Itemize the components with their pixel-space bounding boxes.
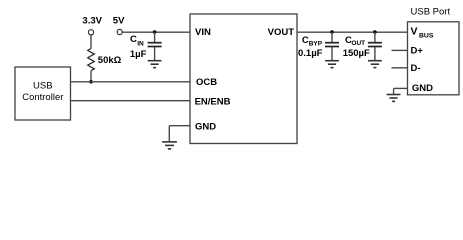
junction node COUT <box>373 30 377 34</box>
svg-text:150µF: 150µF <box>343 48 370 59</box>
svg-text:50kΩ: 50kΩ <box>98 55 122 66</box>
svg-text:OUT: OUT <box>351 40 365 47</box>
svg-text:USB: USB <box>33 81 53 92</box>
svg-text:D+: D+ <box>411 45 424 56</box>
svg-text:3.3V: 3.3V <box>82 16 102 27</box>
wire EN/ENB <box>71 100 190 102</box>
svg-text:VOUT: VOUT <box>268 27 295 38</box>
capacitor C_BYP <box>331 32 333 42</box>
svg-text:GND: GND <box>412 83 433 94</box>
svg-text:EN/ENB: EN/ENB <box>195 97 231 108</box>
svg-text:GND: GND <box>195 122 216 133</box>
svg-text:5V: 5V <box>113 16 125 27</box>
svg-text:IN: IN <box>137 40 144 47</box>
svg-text:V: V <box>411 25 418 37</box>
wire VOUT <box>297 31 408 33</box>
resistor R1 50k zigzag <box>88 49 95 71</box>
wire 3.3V to resistor <box>90 35 92 49</box>
wire GND pin of IC <box>169 125 190 127</box>
USB Controller box <box>15 67 71 120</box>
wire resistor to OCB node <box>90 71 92 82</box>
svg-text:Controller: Controller <box>22 92 63 103</box>
svg-text:C: C <box>130 34 137 45</box>
ground (C_OUT) <box>368 61 382 68</box>
svg-text:D-: D- <box>411 63 421 74</box>
ground (USB port) <box>387 95 401 102</box>
IC U1 box <box>190 14 297 144</box>
wire 5V to VIN <box>122 31 190 33</box>
wire USB port GND <box>394 87 408 89</box>
svg-text:USB Port: USB Port <box>411 7 451 18</box>
ground (C_IN) <box>148 61 162 68</box>
ground (C_BYP) <box>325 61 339 68</box>
wire D- stub <box>392 67 408 69</box>
svg-text:OCB: OCB <box>196 77 217 88</box>
capacitor C_IN <box>154 32 156 42</box>
wire D+ stub <box>392 49 408 51</box>
svg-text:0.1µF: 0.1µF <box>298 48 323 59</box>
wire OCB <box>71 81 190 83</box>
junction node resistor/OCB <box>89 80 93 84</box>
svg-text:1µF: 1µF <box>130 49 147 60</box>
svg-text:BUS: BUS <box>419 32 434 39</box>
USB Port box <box>408 22 460 95</box>
junction node CBYP <box>330 30 334 34</box>
ground (IC GND) <box>162 142 177 149</box>
capacitor C_OUT <box>374 32 376 42</box>
svg-text:VIN: VIN <box>195 27 211 38</box>
junction node CIN <box>153 30 157 34</box>
svg-text:BYP: BYP <box>309 41 323 48</box>
